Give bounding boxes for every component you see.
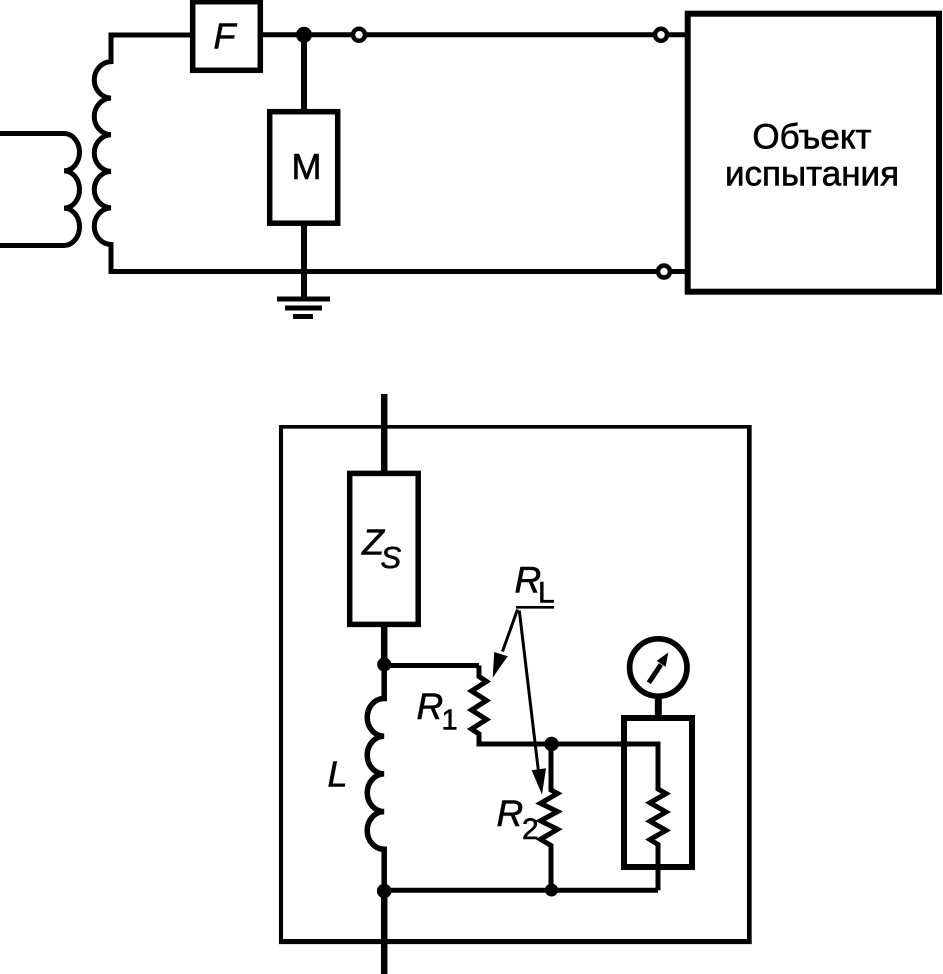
svg-text:испытания: испытания xyxy=(725,154,899,193)
svg-text:Объект: Объект xyxy=(752,118,871,157)
svg-text:R: R xyxy=(417,686,444,727)
svg-text:2: 2 xyxy=(522,813,539,846)
svg-text:S: S xyxy=(381,540,402,575)
svg-text:1: 1 xyxy=(442,705,458,737)
svg-text:F: F xyxy=(214,16,238,57)
svg-text:L: L xyxy=(328,754,348,795)
svg-text:R: R xyxy=(497,793,524,834)
svg-text:L: L xyxy=(538,577,555,610)
svg-text:M: M xyxy=(292,146,322,187)
